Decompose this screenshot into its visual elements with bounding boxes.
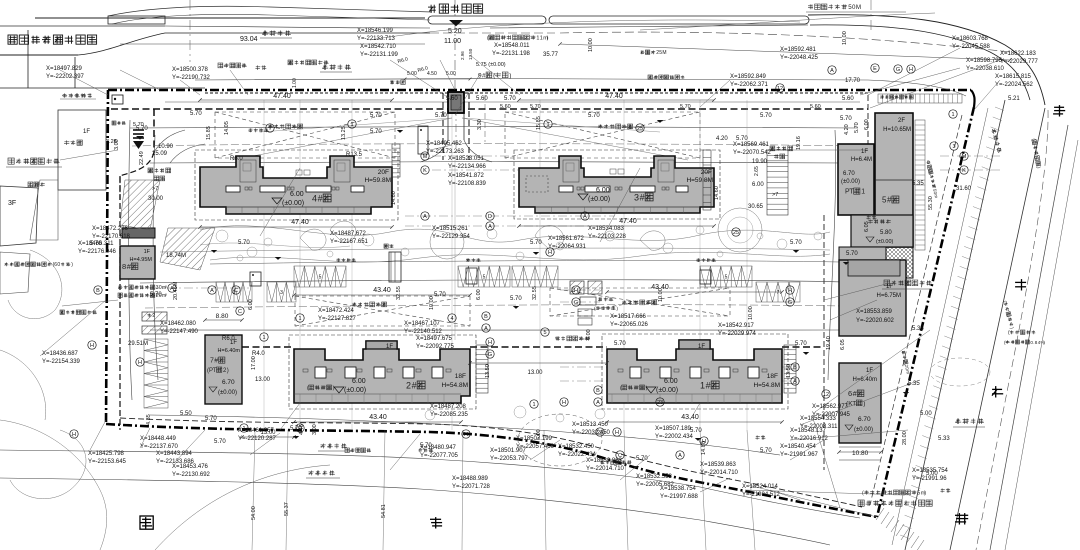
svg-text:Y=-22120.287: Y=-22120.287 — [238, 436, 277, 442]
svg-text:1: 1 — [546, 122, 549, 128]
svg-text:5.70: 5.70 — [190, 111, 202, 117]
svg-text:1F: 1F — [144, 249, 151, 255]
svg-text:5.70: 5.70 — [504, 96, 516, 102]
svg-text:#: # — [706, 380, 711, 390]
svg-text:B: B — [596, 388, 600, 394]
svg-text:43.40: 43.40 — [373, 287, 391, 294]
svg-text:14.60: 14.60 — [714, 186, 720, 200]
svg-text:5.60: 5.60 — [476, 96, 488, 102]
svg-text:6.00: 6.00 — [352, 378, 366, 385]
svg-text:12: 12 — [777, 86, 783, 92]
svg-text:G: G — [896, 67, 900, 73]
svg-text:10.00: 10.00 — [842, 31, 848, 45]
svg-text:5.33: 5.33 — [938, 436, 950, 442]
svg-text:>7: >7 — [772, 192, 778, 198]
svg-text:>7: >7 — [152, 186, 158, 192]
svg-text:6.00: 6.00 — [864, 119, 870, 130]
svg-text:Y=-22202.397: Y=-22202.397 — [46, 74, 85, 80]
svg-text:1F: 1F — [386, 344, 393, 350]
svg-text:D: D — [488, 214, 492, 220]
svg-text:H=59.8M: H=59.8M — [686, 177, 713, 184]
svg-text:30.65: 30.65 — [748, 204, 764, 210]
svg-text:22.49: 22.49 — [139, 151, 145, 165]
svg-text:Y=-22133.713: Y=-22133.713 — [357, 36, 396, 42]
svg-text:1: 1 — [700, 380, 705, 390]
svg-text:H: H — [488, 340, 492, 346]
svg-text:H: H — [138, 360, 142, 366]
svg-text:3: 3 — [280, 290, 283, 296]
svg-text:5.80: 5.80 — [880, 230, 892, 236]
svg-text:H: H — [562, 400, 566, 406]
svg-text:X=18538.754: X=18538.754 — [660, 486, 697, 492]
svg-text:(±0.00): (±0.00) — [282, 200, 304, 207]
svg-text:15.85: 15.85 — [206, 126, 212, 140]
svg-text:5.70: 5.70 — [238, 240, 250, 246]
svg-text:31.60: 31.60 — [956, 186, 972, 192]
svg-text:5.60: 5.60 — [500, 104, 511, 110]
svg-text:3.30: 3.30 — [477, 119, 483, 130]
svg-text:H: H — [702, 439, 706, 445]
svg-text:1: 1 — [262, 335, 265, 341]
svg-text:2.65: 2.65 — [754, 166, 760, 176]
svg-text:Y=-22137.670: Y=-22137.670 — [140, 444, 179, 450]
svg-text:X=18622.183: X=18622.183 — [1000, 51, 1037, 57]
svg-text:55.37: 55.37 — [284, 502, 290, 516]
svg-text:5.70: 5.70 — [790, 240, 802, 246]
svg-text:6.05: 6.05 — [840, 339, 846, 350]
svg-text:43.40: 43.40 — [369, 414, 387, 421]
svg-text:H=54.8M: H=54.8M — [753, 382, 780, 389]
svg-text:X=18487.208: X=18487.208 — [430, 404, 467, 410]
svg-text:A: A — [210, 288, 214, 294]
svg-text:X=18462.080: X=18462.080 — [160, 321, 197, 327]
svg-text:#: # — [482, 72, 486, 79]
svg-text:Y=-22130.692: Y=-22130.692 — [172, 472, 211, 478]
svg-text:6.05: 6.05 — [864, 221, 870, 232]
svg-text:Y=-22071.728: Y=-22071.728 — [452, 484, 491, 490]
svg-text:X=18501.907: X=18501.907 — [490, 448, 527, 454]
svg-text:X=18513.450: X=18513.450 — [572, 422, 609, 428]
svg-text:4: 4 — [450, 316, 453, 322]
svg-text:25: 25 — [733, 230, 739, 236]
svg-text:5.70: 5.70 — [840, 116, 852, 122]
svg-text:14.60: 14.60 — [391, 191, 397, 205]
svg-text:Y=-22062.371: Y=-22062.371 — [730, 82, 769, 88]
svg-text:Y=-22014.710: Y=-22014.710 — [586, 466, 625, 472]
svg-text:11.00: 11.00 — [444, 38, 461, 45]
svg-text:19.40: 19.40 — [826, 336, 832, 350]
svg-text:Y=-22176.946: Y=-22176.946 — [78, 249, 117, 255]
svg-text:M: M — [856, 4, 861, 11]
svg-text:C: C — [618, 453, 622, 459]
svg-text:29.51M: 29.51M — [128, 341, 148, 347]
svg-text:5.70: 5.70 — [370, 129, 382, 135]
svg-text:#: # — [214, 358, 218, 365]
svg-text:13.00: 13.00 — [255, 377, 271, 383]
svg-text:35.77: 35.77 — [543, 52, 559, 58]
svg-text:6.00: 6.00 — [476, 289, 482, 300]
svg-text:Y=-22016.912: Y=-22016.912 — [790, 436, 829, 442]
svg-text:19.90: 19.90 — [752, 159, 768, 165]
svg-text:Y=-22167.651: Y=-22167.651 — [330, 239, 369, 245]
svg-text:E: E — [873, 66, 877, 72]
svg-text:6: 6 — [848, 389, 852, 398]
svg-text:4: 4 — [312, 193, 317, 203]
svg-text:K: K — [423, 168, 427, 174]
svg-text:X=18497.675: X=18497.675 — [416, 336, 453, 342]
svg-text:X=18532.450: X=18532.450 — [558, 444, 595, 450]
svg-text:X=18539.863: X=18539.863 — [700, 462, 737, 468]
svg-text:2F: 2F — [898, 118, 905, 124]
svg-text:5.70: 5.70 — [434, 292, 446, 298]
svg-text:Y=-22092.775: Y=-22092.775 — [416, 344, 455, 350]
svg-text:A: A — [170, 286, 174, 292]
svg-text:30.00: 30.00 — [148, 196, 164, 202]
svg-text:X=18515.261: X=18515.261 — [432, 226, 469, 232]
svg-text:47.40: 47.40 — [291, 219, 309, 226]
svg-text:Y=-22024.562: Y=-22024.562 — [995, 82, 1034, 88]
svg-text:Y=-22147.490: Y=-22147.490 — [160, 329, 199, 335]
svg-text:17.00: 17.00 — [251, 356, 257, 370]
svg-text:18F: 18F — [455, 373, 466, 380]
svg-text:1: 1 — [350, 122, 353, 128]
svg-text:Y=-22131.198: Y=-22131.198 — [492, 51, 531, 57]
svg-text:H: H — [298, 426, 302, 432]
svg-text:5.70: 5.70 — [530, 240, 542, 246]
svg-text:H: H — [90, 343, 94, 349]
svg-text:5.70: 5.70 — [214, 439, 226, 445]
svg-text:B: B — [793, 365, 797, 371]
svg-text:M: M — [662, 50, 666, 56]
svg-text:Y=-22140.512: Y=-22140.512 — [404, 329, 443, 335]
svg-text:5.70: 5.70 — [510, 296, 522, 302]
svg-text:H=6.75M: H=6.75M — [876, 293, 901, 299]
svg-text:6.70: 6.70 — [858, 416, 871, 423]
svg-text:Y=-22170.618: Y=-22170.618 — [92, 234, 131, 240]
svg-text:Y=-22029.777: Y=-22029.777 — [1000, 59, 1039, 65]
svg-text:H: H — [574, 288, 578, 294]
svg-text:18F: 18F — [767, 373, 778, 380]
svg-text:Y=-22002.434: Y=-22002.434 — [655, 434, 694, 440]
svg-text:20F: 20F — [378, 169, 389, 176]
svg-text:5.35: 5.35 — [912, 326, 924, 332]
svg-text:Y=-22070.542: Y=-22070.542 — [733, 150, 772, 156]
svg-text:5.70: 5.70 — [680, 104, 691, 110]
svg-text:X=18592.849: X=18592.849 — [730, 74, 767, 80]
svg-text:Y=-22064.931: Y=-22064.931 — [548, 244, 587, 250]
svg-text:5.70: 5.70 — [614, 341, 626, 347]
svg-text:X=18487.672: X=18487.672 — [330, 231, 367, 237]
svg-text:X=18497.829: X=18497.829 — [46, 66, 83, 72]
svg-text:54.81: 54.81 — [381, 504, 387, 518]
svg-text:H: H — [615, 430, 619, 436]
svg-text:Y=-22103.228: Y=-22103.228 — [588, 234, 627, 240]
svg-text:13.00: 13.00 — [527, 370, 543, 376]
svg-text:Y=-22029.974: Y=-22029.974 — [718, 331, 757, 337]
svg-text:(±0.00): (±0.00) — [344, 387, 366, 394]
svg-text:47.40: 47.40 — [273, 93, 291, 100]
svg-text:R6.0: R6.0 — [230, 156, 243, 162]
svg-text:Y=-22154.339: Y=-22154.339 — [42, 359, 81, 365]
svg-text:A: A — [423, 214, 427, 220]
svg-text:Y=-22108.839: Y=-22108.839 — [448, 181, 487, 187]
svg-text:1: 1 — [951, 112, 954, 118]
svg-text:B: B — [484, 314, 488, 320]
svg-text:(±0.00): (±0.00) — [841, 179, 860, 185]
svg-text:5.70: 5.70 — [760, 448, 772, 454]
svg-text:H=6.40m: H=6.40m — [852, 377, 877, 383]
svg-text:Y=-22134.966: Y=-22134.966 — [448, 164, 487, 170]
svg-text:5.70: 5.70 — [588, 113, 600, 119]
svg-text:5.70: 5.70 — [420, 443, 432, 449]
svg-text:#: # — [887, 196, 892, 205]
svg-text:K: K — [962, 168, 966, 174]
svg-text:18.74M: 18.74M — [166, 253, 186, 259]
svg-text:6.00: 6.00 — [752, 182, 764, 188]
svg-text:X=18554.333: X=18554.333 — [800, 416, 837, 422]
svg-text:47.40: 47.40 — [605, 93, 623, 100]
svg-text:Y=-21984.512: Y=-21984.512 — [742, 492, 781, 498]
svg-text:17.70: 17.70 — [845, 78, 861, 84]
svg-text:5.70: 5.70 — [435, 113, 447, 119]
svg-text:Y=-22053.797: Y=-22053.797 — [490, 456, 529, 462]
svg-text:2: 2 — [406, 380, 411, 390]
svg-text:Y=-22077.705: Y=-22077.705 — [420, 453, 459, 459]
svg-text:H=10.65M: H=10.65M — [883, 127, 911, 133]
svg-text:X=18523.051: X=18523.051 — [448, 156, 485, 162]
svg-text:H=6.4M: H=6.4M — [851, 157, 872, 163]
svg-text:4.35: 4.35 — [146, 414, 152, 425]
svg-text:19.16: 19.16 — [796, 136, 802, 150]
svg-text:3: 3 — [634, 192, 639, 202]
svg-text:13.25: 13.25 — [341, 126, 347, 140]
svg-text:12: 12 — [823, 392, 829, 398]
svg-text:6.70: 6.70 — [222, 379, 235, 386]
svg-text:X=18540.454: X=18540.454 — [780, 444, 817, 450]
svg-text:10.00: 10.00 — [429, 296, 435, 310]
svg-text:6.00: 6.00 — [248, 299, 254, 310]
svg-text:M: M — [423, 154, 428, 160]
svg-text:X=18542.917: X=18542.917 — [718, 323, 755, 329]
svg-text:X=18603.768: X=18603.768 — [952, 36, 989, 42]
svg-text:H: H — [788, 288, 792, 294]
svg-text:5.21: 5.21 — [1008, 96, 1020, 102]
svg-text:5.75 (±0.00): 5.75 (±0.00) — [476, 62, 506, 68]
svg-text:X=18507.189: X=18507.189 — [655, 426, 692, 432]
svg-text:4.20: 4.20 — [844, 124, 850, 135]
svg-text:Y=-22153.645: Y=-22153.645 — [88, 459, 127, 465]
svg-text:1F: 1F — [83, 129, 90, 135]
svg-text:5.60: 5.60 — [842, 96, 854, 102]
svg-text:R4.0: R4.0 — [252, 351, 265, 357]
svg-text:32.55: 32.55 — [396, 286, 402, 300]
svg-text:H=4.95M: H=4.95M — [130, 257, 153, 263]
svg-text:1: 1 — [242, 426, 245, 432]
svg-text:X=18535.754: X=18535.754 — [912, 468, 949, 474]
svg-text:X=18548.137: X=18548.137 — [790, 428, 827, 434]
svg-text:X=18592.481: X=18592.481 — [780, 47, 817, 53]
svg-text:X=18443.894: X=18443.894 — [156, 451, 193, 457]
svg-text:Y=-22127.827: Y=-22127.827 — [318, 316, 357, 322]
svg-text:A: A — [830, 68, 834, 74]
svg-text:Y=-22038.610: Y=-22038.610 — [966, 66, 1005, 72]
svg-text:X=18561.672: X=18561.672 — [548, 236, 585, 242]
svg-text:X=18425.798: X=18425.798 — [88, 451, 125, 457]
svg-text:3: 3 — [952, 144, 955, 150]
svg-text:5.70: 5.70 — [636, 456, 648, 462]
svg-text:1F: 1F — [698, 344, 705, 350]
svg-text:X=18436.687: X=18436.687 — [42, 351, 79, 357]
svg-text:R6.0: R6.0 — [222, 336, 235, 342]
svg-text:X=18542.710: X=18542.710 — [360, 44, 397, 50]
svg-text:X=18562.977: X=18562.977 — [812, 404, 849, 410]
svg-text:10.00: 10.00 — [588, 38, 594, 52]
svg-text:23: 23 — [657, 400, 663, 406]
svg-text:5.50: 5.50 — [180, 411, 192, 417]
svg-text:): ) — [333, 386, 335, 392]
svg-text:5: 5 — [319, 275, 322, 281]
svg-text:54.00: 54.00 — [251, 506, 257, 520]
svg-text:C: C — [234, 288, 238, 294]
svg-text:A: A — [583, 214, 587, 220]
svg-text:Y=-22131.199: Y=-22131.199 — [360, 52, 399, 58]
svg-text:5.70: 5.70 — [370, 113, 382, 119]
svg-text:3.00: 3.00 — [312, 424, 318, 435]
svg-text:47.40: 47.40 — [619, 218, 637, 225]
svg-text:X=18453.476: X=18453.476 — [172, 464, 209, 470]
svg-text:Y=-22014.710: Y=-22014.710 — [700, 470, 739, 476]
svg-text:Y=-21991.96: Y=-21991.96 — [912, 476, 947, 482]
svg-text:93.04: 93.04 — [240, 36, 258, 43]
svg-text:2.96: 2.96 — [460, 51, 465, 60]
svg-text:Y=-22085.235: Y=-22085.235 — [430, 412, 469, 418]
svg-text:6.00: 6.00 — [664, 378, 678, 385]
svg-text:5.70: 5.70 — [133, 122, 144, 128]
svg-text:G: G — [574, 300, 578, 306]
svg-text:4.50: 4.50 — [427, 71, 437, 77]
svg-text:R13.5: R13.5 — [346, 152, 363, 158]
svg-text:10.80: 10.80 — [852, 450, 869, 457]
svg-text:(±0.00): (±0.00) — [656, 387, 678, 394]
svg-text:5.60: 5.60 — [810, 104, 821, 110]
svg-text:5.70: 5.70 — [205, 416, 217, 422]
svg-text:X=18541.872: X=18541.872 — [448, 173, 485, 179]
svg-text:3.28: 3.28 — [106, 139, 117, 145]
svg-text:5.35: 5.35 — [912, 181, 924, 187]
svg-text:G: G — [788, 300, 792, 306]
svg-text:(±0.00): (±0.00) — [876, 239, 894, 245]
svg-text:Y=-21991.967: Y=-21991.967 — [780, 452, 819, 458]
svg-text:25: 25 — [637, 126, 643, 132]
svg-text:8.80: 8.80 — [216, 313, 229, 320]
svg-text:): ) — [509, 72, 511, 79]
svg-text:X=18488.989: X=18488.989 — [452, 476, 489, 482]
svg-text:X=18495.462: X=18495.462 — [426, 141, 463, 147]
svg-text:5.70: 5.70 — [760, 113, 772, 119]
svg-text:5: 5 — [483, 275, 486, 281]
svg-text:X=18615.815: X=18615.815 — [995, 74, 1032, 80]
svg-text:13.50: 13.50 — [485, 364, 491, 378]
svg-text:6.00: 6.00 — [596, 187, 610, 194]
svg-text:G: G — [488, 352, 492, 358]
svg-text:Y=-22173.263: Y=-22173.263 — [426, 149, 465, 155]
svg-text:A: A — [678, 453, 682, 459]
svg-text:15.85: 15.85 — [536, 116, 542, 130]
svg-text:55.30: 55.30 — [928, 196, 934, 210]
svg-text:X=18548.011: X=18548.011 — [494, 43, 530, 49]
svg-text:5.70: 5.70 — [530, 104, 541, 110]
svg-text:H: H — [72, 432, 76, 438]
svg-text:T: T — [852, 400, 856, 407]
svg-text:6.70: 6.70 — [843, 171, 855, 177]
svg-text:X=18472.286: X=18472.286 — [92, 226, 129, 232]
svg-text:A: A — [488, 224, 492, 230]
svg-text:X=18532.558: X=18532.558 — [636, 474, 673, 480]
svg-text:Y=-22129.354: Y=-22129.354 — [432, 234, 471, 240]
svg-text:C: C — [238, 309, 242, 315]
svg-text:X=18534.083: X=18534.083 — [588, 226, 625, 232]
svg-text:32.55: 32.55 — [532, 286, 538, 300]
svg-text:#: # — [412, 380, 417, 390]
svg-text:H=54.8M: H=54.8M — [441, 382, 468, 389]
svg-text:H: H — [464, 432, 468, 438]
svg-text:H: H — [548, 250, 552, 256]
svg-text:X=18569.461: X=18569.461 — [733, 142, 770, 148]
svg-text:5.70: 5.70 — [795, 341, 807, 347]
svg-text:H=6.40m: H=6.40m — [218, 348, 241, 354]
svg-text:X=18517.666: X=18517.666 — [610, 314, 647, 320]
svg-text:10.90: 10.90 — [158, 144, 174, 150]
svg-text:(±0.00): (±0.00) — [588, 196, 610, 203]
svg-text:2: 2 — [152, 313, 155, 319]
svg-text:0: 0 — [57, 262, 60, 268]
svg-text:A: A — [596, 400, 600, 406]
svg-text:3F: 3F — [8, 200, 16, 207]
svg-text:7: 7 — [777, 290, 780, 296]
svg-text:Y=-21997.688: Y=-21997.688 — [660, 494, 699, 500]
svg-text:B: B — [96, 288, 100, 294]
svg-text:#: # — [318, 193, 323, 203]
svg-text:6.00: 6.00 — [290, 191, 304, 198]
svg-text:8: 8 — [122, 262, 126, 271]
svg-text:5: 5 — [543, 330, 546, 336]
svg-text:5.60: 5.60 — [446, 96, 458, 102]
svg-text:Y=-22020.602: Y=-22020.602 — [856, 318, 895, 324]
svg-text:M: M — [962, 154, 967, 160]
svg-text:X=18553.859: X=18553.859 — [856, 309, 893, 315]
svg-text:A: A — [484, 326, 488, 332]
svg-text:5.70: 5.70 — [846, 251, 858, 257]
svg-text:X=18472.424: X=18472.424 — [318, 308, 355, 314]
svg-text:(±0.00): (±0.00) — [854, 427, 873, 433]
svg-text:1: 1 — [861, 189, 865, 196]
svg-text:): ) — [227, 368, 229, 374]
svg-text:5.70: 5.70 — [854, 122, 860, 133]
svg-text:10.00: 10.00 — [658, 288, 664, 302]
svg-text:1: 1 — [532, 402, 535, 408]
svg-text:Y=-22048.425: Y=-22048.425 — [780, 55, 819, 61]
svg-text:#: # — [640, 192, 645, 202]
svg-text:): ) — [924, 491, 926, 497]
svg-text:Y=-22032.450: Y=-22032.450 — [572, 430, 611, 436]
svg-text:Y=-22065.026: Y=-22065.026 — [610, 322, 649, 328]
svg-text:28.00: 28.00 — [902, 431, 908, 445]
svg-text:X=18500.378: X=18500.378 — [172, 67, 209, 73]
svg-text:13.50: 13.50 — [468, 48, 473, 60]
svg-text:H=59.8M: H=59.8M — [364, 177, 391, 184]
svg-text:X=18466.311: X=18466.311 — [78, 241, 114, 247]
svg-text:1: 1 — [298, 316, 301, 322]
